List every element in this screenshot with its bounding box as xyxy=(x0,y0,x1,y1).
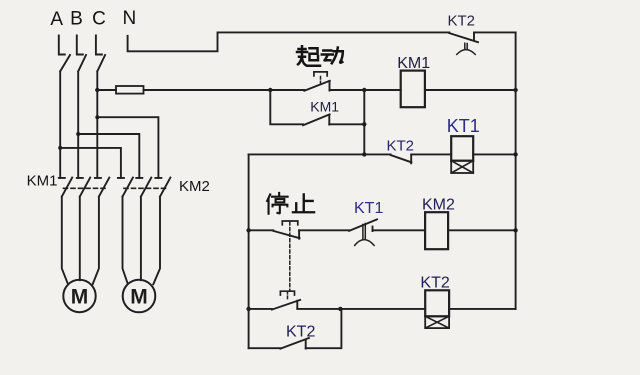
wire N drop to control rail top xyxy=(128,32,450,51)
svg-text:C: C xyxy=(92,9,106,30)
relay KT1 delayed NO contact xyxy=(349,219,377,231)
svg-text:M: M xyxy=(71,286,89,309)
junction main line right xyxy=(362,88,366,92)
pushbutton SB1 NO contact xyxy=(272,300,300,310)
wire jog phase C to KM2 pole3 xyxy=(97,117,158,178)
wire start button to node xyxy=(330,89,365,91)
label KT1 (coil) xyxy=(447,116,480,136)
KT1 delay symbol xyxy=(355,224,374,246)
svg-text:B: B xyxy=(70,9,83,30)
pushbutton SB1 stop NC contact xyxy=(273,230,299,238)
wire KM1 branch right xyxy=(329,123,364,125)
pushbutton SB2 start actuator xyxy=(314,72,327,84)
wire left rail to stop button xyxy=(249,229,274,231)
svg-text:M: M xyxy=(130,286,148,309)
svg-text:KT2: KT2 xyxy=(448,13,476,30)
junction phase B tap xyxy=(76,132,80,136)
wire KM1 branch down-left xyxy=(270,90,303,124)
junction NO row node xyxy=(338,307,342,311)
node B label xyxy=(70,9,83,30)
label KT2 (row contact) xyxy=(387,138,415,155)
junction right rail stop row xyxy=(513,228,517,232)
wire phase A to KM1 pole1 xyxy=(59,148,61,178)
motor M2 xyxy=(123,280,156,313)
pushbutton SB2 start NO contact xyxy=(304,81,330,91)
contactor KM2 main contact pole1 xyxy=(118,178,133,284)
wire node down to KT2 row xyxy=(363,90,365,154)
svg-text:KT1: KT1 xyxy=(354,200,383,217)
KT2 top delay symbol xyxy=(457,43,475,54)
contactor KM1 main contact pole1 xyxy=(59,178,72,284)
motor M1 label M xyxy=(71,286,89,309)
junction right rail main xyxy=(513,88,517,92)
left rail of stop section xyxy=(248,154,250,348)
wire node to coil KT2 xyxy=(340,308,425,310)
junction phase C tap xyxy=(95,115,99,119)
wire KT2 row from left rail xyxy=(249,153,391,155)
svg-text:KT2: KT2 xyxy=(420,275,449,292)
coil KT1 (timer) xyxy=(451,136,473,173)
wire coil KT1 to right rail xyxy=(473,153,515,155)
KM2 mechanical linkage dashes xyxy=(124,187,169,189)
wire jog phase A to KM2 pole1 xyxy=(60,148,121,178)
wire coil KM2 to right rail xyxy=(448,229,515,231)
relay KT2 NO contact (bottom) xyxy=(280,338,309,349)
wire NO button to node xyxy=(297,308,340,310)
pushbutton SB1 lower actuator xyxy=(280,291,294,299)
disconnect switch QS pole C xyxy=(96,36,105,118)
disconnect switch QS pole A xyxy=(59,36,70,148)
label KT2 (coil) xyxy=(420,275,449,292)
label KM1 (main contacts) xyxy=(27,173,58,190)
node N label xyxy=(123,8,137,29)
wire bottom branch left xyxy=(249,347,281,349)
contactor KM2 main contact pole3 xyxy=(153,178,170,285)
svg-text:KM2: KM2 xyxy=(179,178,210,195)
label KT2 (bottom contact) xyxy=(286,324,315,341)
node A label xyxy=(50,9,63,30)
label KM2 (coil) xyxy=(422,197,455,214)
pushbutton SB1 stop actuator xyxy=(282,221,298,225)
wire KT1 contact to coil KM2 xyxy=(373,229,426,231)
contactor KM2 main contact pole2 xyxy=(136,178,151,281)
wire main line to coil KM1 xyxy=(364,89,400,91)
wire KT2 contact to coil KT1 xyxy=(411,153,451,155)
svg-text:KT2: KT2 xyxy=(387,138,415,155)
disconnect switch QS pole B xyxy=(77,36,86,135)
svg-text:A: A xyxy=(50,9,63,30)
label KT1 (delayed contact) xyxy=(354,200,383,217)
label KT2 (top contact) xyxy=(448,13,476,30)
label 停止 (stop) xyxy=(267,193,314,214)
contactor KM1 main contact pole2 xyxy=(77,178,90,281)
svg-text:N: N xyxy=(123,8,137,29)
junction fuse tap on phase C xyxy=(95,88,99,92)
coil KM1 xyxy=(401,71,425,108)
label KM1 (auxiliary contact) xyxy=(310,99,339,115)
wire phase B to KM1 pole2 xyxy=(77,134,79,178)
coil KT2 (timer) xyxy=(425,290,449,328)
wire phase C to fuse xyxy=(97,89,116,91)
wire stop button to KT1 contact xyxy=(299,229,349,231)
node C label xyxy=(92,9,106,30)
junction left rail stop row xyxy=(246,228,250,232)
svg-text:KT2: KT2 xyxy=(286,324,315,341)
label KM1 (coil) xyxy=(397,55,430,72)
coil KM2 xyxy=(425,212,448,249)
wire phase C to KM1 pole3 xyxy=(96,117,98,178)
contactor KM1 main contact pole3 xyxy=(93,178,110,285)
label 起动 (start) xyxy=(297,46,343,66)
right rail xyxy=(515,32,517,309)
junction phase A tap xyxy=(58,146,62,150)
wire jog phase B to KM2 pole2 xyxy=(78,134,139,178)
svg-text:KM1: KM1 xyxy=(27,173,58,190)
svg-text:KM1: KM1 xyxy=(310,99,339,115)
svg-text:KT1: KT1 xyxy=(447,116,480,136)
svg-text:KM2: KM2 xyxy=(422,197,455,214)
junction right rail KT2 row xyxy=(513,152,517,156)
wire top right to rail xyxy=(474,31,516,33)
junction KT2 row node xyxy=(362,152,366,156)
wire coil KM1 to right rail xyxy=(425,89,516,91)
wire left rail to NO button xyxy=(249,308,272,310)
pushbutton SB1 link dashes xyxy=(289,222,291,291)
fuse FU xyxy=(116,86,144,94)
KM1 mechanical linkage dashes xyxy=(64,187,108,189)
label KM2 (main contacts) xyxy=(179,178,210,195)
wire fuse to start button xyxy=(144,89,305,91)
motor M1 xyxy=(63,280,95,312)
relay KT2 delayed NC contact (top) xyxy=(449,33,478,43)
svg-text:KM1: KM1 xyxy=(397,55,430,72)
junction main line left xyxy=(268,88,272,92)
contact KM1 auxiliary NO xyxy=(303,114,330,125)
wire bottom branch right riser xyxy=(306,309,342,348)
junction KM1 branch xyxy=(362,122,366,126)
motor M2 label M xyxy=(130,286,148,309)
junction left rail NO row xyxy=(246,307,250,311)
relay KT2 NO contact (row) xyxy=(391,155,412,163)
wire coil KT2 to right rail xyxy=(449,308,515,310)
